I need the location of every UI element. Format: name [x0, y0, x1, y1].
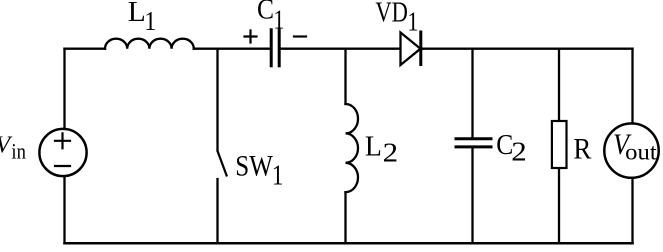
capacitor C1: [271, 30, 279, 66]
inductor L1: [105, 39, 194, 49]
wire L2 lower: [344, 192, 346, 243]
svg-text:R: R: [573, 133, 591, 165]
svg-text:out: out: [625, 139, 657, 165]
label R: [573, 133, 591, 165]
wire L2 upper: [344, 49, 346, 104]
capacitor C2: [456, 139, 491, 147]
wire VD1 to top-right corner: [422, 48, 633, 50]
resistor R body: [552, 121, 567, 168]
switch SW1 lower wire: [216, 179, 218, 243]
svg-text:2: 2: [511, 136, 527, 166]
wire C2 lower: [471, 148, 473, 243]
wire C1 to VD1: [281, 48, 399, 50]
svg-text:1: 1: [407, 7, 418, 37]
label C1: [257, 0, 284, 35]
label L2: [365, 130, 398, 167]
wire top-left segment: [65, 48, 106, 50]
switch SW1 upper wire: [216, 49, 218, 151]
Vin plus sign: [55, 133, 70, 148]
capacitor C1 minus sign: [294, 35, 306, 37]
label VD1: [375, 0, 418, 36]
svg-text:2: 2: [383, 138, 399, 168]
label SW1: [235, 150, 283, 192]
label Vin: [0, 132, 26, 163]
source Vin circle: [39, 129, 86, 176]
svg-text:C: C: [257, 0, 274, 26]
label C2: [496, 129, 527, 166]
wire R lower: [558, 169, 560, 243]
svg-text:VD: VD: [375, 0, 408, 28]
svg-text:SW: SW: [235, 150, 273, 183]
label Vout: [613, 128, 657, 166]
wire left rail upper: [63, 49, 65, 128]
capacitor C1 plus sign: [245, 31, 257, 43]
switch SW1 blade: [218, 152, 227, 176]
diode VD1: [401, 33, 421, 66]
svg-text:1: 1: [273, 5, 284, 35]
wire C2 upper: [471, 49, 473, 138]
svg-text:1: 1: [144, 6, 156, 36]
wire R upper: [558, 49, 560, 120]
svg-text:L: L: [128, 0, 146, 28]
source Vout circle: [604, 123, 658, 177]
wire bottom: [65, 242, 633, 245]
label L1: [128, 0, 156, 36]
Vin minus sign: [55, 165, 70, 167]
wire right rail upper: [631, 49, 633, 124]
svg-text:in: in: [11, 139, 26, 164]
wire right rail lower: [631, 178, 633, 243]
svg-text:1: 1: [272, 160, 284, 192]
wire left rail lower: [63, 177, 65, 243]
svg-text:L: L: [365, 130, 382, 162]
wire L1 to C1: [194, 48, 270, 50]
inductor L2: [346, 104, 359, 192]
